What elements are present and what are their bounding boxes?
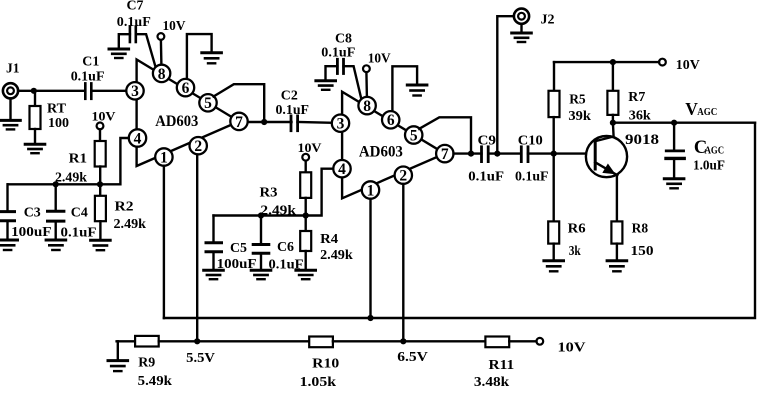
svg-text:0.1uF: 0.1uF — [515, 169, 549, 184]
resistor R9 — [135, 336, 159, 370]
junction C6 tap — [258, 212, 264, 218]
pin 2 (U1) — [190, 137, 207, 155]
wire C2 to pin 3 (U2) — [298, 121, 333, 124]
pin 4 (U2) — [333, 160, 350, 178]
svg-text:4: 4 — [134, 130, 142, 147]
svg-text:6.5V: 6.5V — [397, 350, 428, 365]
wire U1 output to C2 — [248, 121, 292, 123]
svg-text:C4: C4 — [71, 206, 88, 221]
resistor R6 — [548, 154, 585, 260]
junction C_AGC tap — [671, 120, 677, 126]
op-amp U2 AD603 (second stage) — [342, 92, 445, 199]
svg-text:C5: C5 — [230, 241, 247, 256]
svg-text:10V: 10V — [558, 341, 586, 356]
wire pin 2 (U2) to 6.5V tap — [402, 184, 404, 341]
wire pin 6 to ground (U2) — [392, 66, 417, 112]
power terminal 10V (R3 top) — [298, 140, 323, 160]
capacitor C3 — [0, 184, 41, 238]
svg-text:5: 5 — [204, 95, 212, 112]
svg-text:1.0uF: 1.0uF — [693, 159, 725, 174]
wire pin 2 (U1) to 5.5V tap — [196, 154, 198, 341]
junction J1/RT node — [31, 88, 37, 94]
svg-text:3: 3 — [131, 83, 139, 100]
junction R3/R4 node — [303, 212, 309, 218]
ground (C8) — [316, 81, 336, 90]
svg-text:5.49k: 5.49k — [138, 374, 172, 389]
ground (C4) — [46, 240, 66, 250]
wire AGC feedback line (V_AGC to divider) — [164, 123, 755, 318]
ground (R2) — [91, 240, 111, 250]
junction R7/collector/V_AGC node — [610, 120, 616, 126]
svg-text:0.1uF: 0.1uF — [117, 15, 151, 30]
wire J1 to C1 — [18, 90, 85, 92]
wire pin 6 to ground (U1) — [187, 34, 212, 80]
junction base node — [551, 151, 557, 157]
svg-text:R6: R6 — [568, 222, 586, 237]
capacitor C6 — [253, 216, 294, 270]
resistor R4 — [300, 216, 338, 270]
ground (R9 left) — [108, 341, 128, 371]
wire R10 to R11 — [333, 340, 486, 342]
power terminal 10V (bottom) — [536, 338, 585, 356]
svg-text:C8: C8 — [335, 32, 352, 47]
svg-text:3.48k: 3.48k — [474, 375, 510, 390]
ground (U2 pin 6) — [407, 85, 427, 96]
svg-text:R3: R3 — [260, 186, 278, 201]
svg-text:R9: R9 — [138, 355, 155, 370]
svg-text:100: 100 — [48, 116, 69, 131]
svg-text:J2: J2 — [541, 13, 555, 28]
capacitor C_AGC — [666, 123, 724, 178]
wire C7 right to pin 8 — [136, 34, 156, 67]
junction pin1(U2)/feedback — [367, 315, 373, 321]
power terminal 10V (R1 top) — [92, 109, 117, 130]
ground (below J2) — [512, 24, 532, 42]
capacitor C10 — [518, 134, 543, 162]
svg-text:R4: R4 — [320, 232, 338, 247]
pin 8 (U2) — [358, 97, 375, 115]
svg-text:9018: 9018 — [625, 132, 659, 148]
svg-text:7: 7 — [235, 114, 243, 131]
svg-text:0.1uF: 0.1uF — [468, 169, 504, 184]
wire bias node row (C3/C4/R1) to pin 4 — [8, 138, 129, 184]
capacitor C1 — [82, 55, 99, 99]
svg-text:2: 2 — [399, 168, 407, 185]
svg-text:0.1uF: 0.1uF — [71, 70, 105, 85]
svg-text:6: 6 — [387, 112, 395, 129]
svg-text:6: 6 — [182, 80, 190, 97]
svg-text:C9: C9 — [478, 134, 497, 149]
svg-text:3k: 3k — [569, 244, 581, 259]
wire emitter to R8 — [616, 175, 618, 221]
resistor R8 — [611, 221, 648, 259]
wire C8 left to ground — [326, 66, 338, 79]
wire V_AGC line — [613, 121, 755, 123]
svg-text:10V: 10V — [163, 19, 186, 34]
pin 5 (U2) — [405, 126, 422, 144]
pin 1 (U2) — [362, 181, 379, 199]
svg-text:2.49k: 2.49k — [114, 217, 147, 232]
ground (C_AGC) — [664, 179, 684, 189]
svg-text:2: 2 — [194, 138, 202, 155]
pin 5 (U1) — [199, 94, 216, 112]
ground (C7) — [109, 49, 129, 58]
pin 3 (U2) — [332, 115, 349, 133]
pin 6 (U1) — [177, 79, 194, 97]
svg-text:8: 8 — [363, 98, 371, 115]
svg-text:AGC: AGC — [705, 145, 725, 156]
capacitor C8 — [335, 32, 352, 74]
wire pin 1 (U1) to AGC feedback line — [163, 166, 165, 318]
svg-text:5: 5 — [410, 127, 418, 144]
wire C9 to C10 — [488, 152, 521, 154]
junction C9/C10/J2 node — [494, 151, 500, 157]
wire pin 5 to output feedback (U2) — [419, 117, 471, 153]
ground (R6) — [544, 261, 564, 272]
svg-text:7: 7 — [441, 146, 449, 163]
svg-text:R7: R7 — [628, 90, 645, 105]
svg-text:R2: R2 — [115, 199, 134, 214]
connector J1 — [3, 62, 20, 99]
capacitor C4 — [48, 184, 88, 238]
pin 1 (U1) — [155, 148, 172, 166]
power terminal 10V (U1 pin 8) — [158, 19, 186, 40]
junction node 6.5V — [400, 338, 406, 344]
capacitor C9 — [478, 134, 497, 162]
ground (U1 pin 6) — [202, 53, 222, 64]
junction U2 output node — [468, 151, 474, 157]
svg-text:AD603: AD603 — [155, 113, 198, 130]
pin 4 (U1) — [129, 129, 146, 147]
svg-text:5.5V: 5.5V — [186, 351, 215, 366]
pin 2 (U2) — [395, 167, 412, 185]
wire 10V terminal to pin 8 — [160, 40, 163, 65]
wire C10 to base node — [528, 152, 594, 154]
resistor R10 — [309, 337, 339, 372]
resistor R1 — [69, 129, 106, 184]
svg-text:1: 1 — [160, 149, 168, 166]
svg-text:R8: R8 — [632, 222, 649, 237]
svg-text:2.49k: 2.49k — [55, 170, 87, 185]
power terminal 10V (U2 pin 8) — [363, 52, 391, 72]
resistor R11 — [485, 337, 514, 373]
pin 8 (U1) — [153, 65, 170, 83]
ground (below J1) — [1, 98, 21, 129]
resistor R3 — [260, 161, 312, 216]
pin 3 (U1) — [126, 82, 143, 100]
resistor R2 — [95, 184, 134, 239]
junction U1 output node — [261, 119, 267, 125]
svg-text:C7: C7 — [127, 0, 144, 14]
svg-text:C6: C6 — [277, 240, 294, 255]
svg-text:R10: R10 — [312, 357, 339, 372]
ground (R8) — [607, 261, 627, 272]
svg-text:100uF: 100uF — [11, 225, 52, 240]
wire R9 to R10 — [159, 340, 310, 342]
ground (R4) — [296, 270, 316, 279]
wire C7 left to ground — [119, 34, 130, 48]
pin 7 (U2) — [436, 145, 453, 163]
power terminal 10V (rail) — [659, 58, 700, 73]
svg-text:C3: C3 — [24, 205, 41, 220]
wire 10V rail — [554, 61, 659, 63]
transistor Q1 9018 — [586, 123, 659, 178]
svg-text:36k: 36k — [629, 108, 651, 123]
wire J2 drop — [497, 16, 513, 153]
svg-text:C2: C2 — [281, 89, 298, 104]
wire U2 output to C9 — [454, 152, 482, 154]
svg-text:150: 150 — [631, 244, 654, 259]
svg-text:39k: 39k — [568, 109, 591, 124]
resistor RT — [30, 91, 67, 143]
svg-text:C10: C10 — [518, 134, 543, 149]
junction R1/R2 node — [97, 181, 103, 187]
svg-text:10V: 10V — [676, 58, 700, 73]
svg-text:R5: R5 — [569, 93, 586, 108]
svg-text:10V: 10V — [92, 109, 117, 124]
svg-text:3: 3 — [337, 116, 345, 133]
resistor R7 — [607, 62, 645, 123]
junction node 5.5V — [194, 338, 200, 344]
junction C4 tap — [53, 181, 59, 187]
ground (C3) — [0, 240, 18, 250]
pin 6 (U2) — [382, 111, 399, 129]
svg-text:R1: R1 — [69, 151, 88, 166]
ground (C5) — [204, 270, 224, 279]
svg-text:R11: R11 — [489, 358, 515, 373]
wire pin 5 to output feedback (U1) — [214, 84, 265, 122]
svg-text:10V: 10V — [298, 140, 323, 155]
op-amp U1 AD603 (first stage) — [137, 60, 239, 167]
svg-text:AD603: AD603 — [359, 144, 403, 161]
resistor R5 — [549, 62, 586, 154]
svg-text:0.1uF: 0.1uF — [321, 46, 355, 61]
svg-text:8: 8 — [158, 66, 166, 83]
svg-text:RT: RT — [47, 102, 67, 117]
capacitor C5 — [206, 216, 247, 270]
wire ground to R9 — [117, 340, 136, 342]
net label V_AGC — [685, 99, 717, 119]
svg-text:AGC: AGC — [697, 107, 717, 118]
pin 7 (U1) — [230, 113, 247, 131]
svg-text:2.49k: 2.49k — [320, 248, 353, 263]
svg-text:0.1uF: 0.1uF — [61, 226, 97, 241]
ground (below RT) — [25, 144, 45, 153]
connector J2 — [514, 9, 555, 28]
svg-text:J1: J1 — [6, 62, 20, 77]
svg-text:1.05k: 1.05k — [300, 375, 337, 390]
wire bias node row (C5/C6/R3) to pin 4 (U2) — [214, 169, 334, 216]
wire C1 to pin 3 — [91, 90, 126, 92]
wire C8 right to pin 8 (U2) — [344, 66, 362, 99]
capacitor C2 — [281, 89, 298, 131]
svg-text:C1: C1 — [82, 55, 99, 70]
wire pin 1 (U2) to AGC feedback line — [369, 199, 371, 318]
wire 10V terminal to pin 8 (U2) — [365, 72, 368, 97]
svg-text:4: 4 — [338, 161, 346, 178]
ground (C6) — [251, 270, 271, 279]
svg-text:10V: 10V — [368, 52, 391, 67]
svg-text:0.1uF: 0.1uF — [276, 103, 310, 118]
wire R11 to 10V terminal — [509, 340, 536, 342]
svg-text:1: 1 — [367, 182, 375, 199]
junction R7/rail — [610, 59, 616, 65]
capacitor C7 — [127, 0, 144, 42]
